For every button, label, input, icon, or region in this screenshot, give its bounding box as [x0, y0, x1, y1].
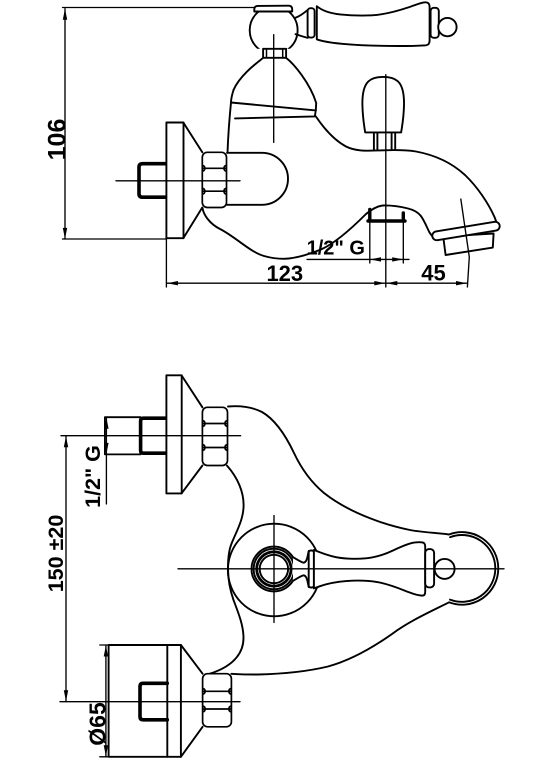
dimension 1/2"G (bottom view): dimension line [105, 418, 107, 504]
dimension 106: arrow down [63, 228, 67, 239]
flange pipe centerline (top view) [116, 180, 240, 182]
body outline: upper right arm to diverter knob circle to lower right arm [228, 406, 498, 674]
dimension 106: dimension line [64, 9, 66, 239]
svg-text:106: 106 [44, 119, 72, 161]
diverter knob inner arc (bottom view) [450, 535, 495, 602]
dimension 150: arrow up [64, 436, 68, 447]
top flange pipe union (bold, bottom view) [141, 418, 167, 453]
bottom flange plate rim line [166, 645, 168, 757]
dimension 123: arrow right [374, 281, 385, 285]
upper body left edge [228, 90, 234, 153]
inlet pipe union (bold, top view) [139, 164, 166, 198]
bottom flange centerline (bottom view) [60, 701, 240, 703]
dimension 106: arrow up [63, 9, 67, 20]
dimension diameter 65: extension lines [100, 645, 111, 757]
top wall flange plate (bottom view) [166, 375, 181, 493]
lever end cap (bottom view) [425, 549, 434, 587]
body skirt / spout bottom outline [203, 205, 434, 258]
dimension 45: arrow right [456, 281, 467, 285]
dimension 1/2"G (bottom view): arrow up [104, 418, 108, 429]
lever neck fill (bottom view) [293, 551, 309, 587]
hub vertical centerline [273, 516, 275, 623]
lever neck curves (bottom view) [293, 551, 309, 587]
body outline: left waist between flanges [210, 466, 244, 674]
bottom flange cone (bottom view) [181, 645, 203, 757]
lever end cap (top view) [431, 8, 439, 38]
lever neck (top view) [296, 10, 308, 38]
hub horizontal centerline [178, 568, 504, 570]
dimension 1/2"G (top view): arrow left [370, 257, 381, 261]
dimension 1/2"G (top view): extension line left [369, 221, 371, 263]
top flange hex nut (bottom view) [202, 407, 227, 465]
wall plate extension line down to 123 dimension [165, 238, 167, 287]
dimension 1/2"G (top view): arrow right [392, 257, 403, 261]
spout top edge [316, 116, 498, 225]
top flange cone (bottom view) [182, 376, 203, 494]
body step ring under cartridge dome [231, 103, 316, 119]
dimension 150 +-20: dimension line [65, 436, 67, 701]
bottom flange hex nut (bottom view) [203, 674, 232, 727]
svg-text:Ø65: Ø65 [85, 702, 111, 746]
lever ferrule (bottom view) [309, 551, 314, 588]
dimension 106: extension line top [63, 7, 256, 9]
svg-text:150 ±20: 150 ±20 [44, 515, 68, 593]
dimension 123/45: dimension line [167, 282, 467, 284]
top flange inlet pipe (bottom view) [105, 417, 141, 454]
knob / outlet vertical centerline [385, 75, 387, 287]
bottom flange pipe socket (bold) [140, 683, 167, 720]
svg-text:45: 45 [421, 260, 445, 285]
dimension 150: arrow down [64, 690, 68, 701]
valve body capsule (top view) [227, 153, 288, 205]
aerator ring [432, 221, 501, 241]
lever ferrule (top view) [308, 8, 315, 37]
dimension diameter 65: dimension line [105, 645, 107, 757]
hub outer circle (handle boss) [228, 524, 321, 617]
dimension 1/2"G (top view): dimension line [307, 258, 409, 260]
ball vertical centerline [273, 35, 275, 143]
lever handle (bottom view) [314, 542, 425, 595]
collar mask [255, 49, 292, 58]
flange hex nut (top view) [202, 152, 226, 207]
dimension 1/2"G (bottom view): arrow down [104, 443, 108, 454]
diverter knob stem (top view) [374, 133, 395, 151]
lever finial ball (bottom view) [435, 559, 455, 579]
ball joint [250, 6, 298, 54]
collar inner lines [267, 49, 283, 58]
aerator centerline and 45 extension [461, 199, 470, 287]
lever handle (top view) [317, 2, 430, 46]
spout outlet nipple 1/2"G (bold) [368, 210, 405, 222]
cartridge dome [234, 58, 317, 111]
dimension diameter 65: arrow up [104, 646, 108, 657]
bottom wall flange plate (bottom view) [109, 645, 181, 757]
svg-text:1/2" G: 1/2" G [81, 445, 105, 508]
diverter knob bell (top view) [362, 77, 404, 132]
dimension 45: arrow left [386, 281, 397, 285]
wall flange cone (top view) [184, 123, 203, 238]
collar ring below ball [263, 49, 286, 58]
aerator cup [443, 234, 493, 256]
svg-text:123: 123 [266, 261, 303, 286]
top flange centerline (bottom view) [61, 435, 241, 437]
lever finial ball (top view) [438, 18, 456, 36]
hub cap rings [252, 547, 297, 592]
ball top cap [254, 6, 292, 12]
dimension diameter 65: arrow down [104, 745, 108, 756]
dimension 106: extension line bottom [63, 238, 167, 240]
dimension 123: arrow left [167, 281, 178, 285]
wall flange plate (top view) [166, 123, 183, 239]
dimension 1/2"G (top view): extension line right [402, 221, 404, 263]
